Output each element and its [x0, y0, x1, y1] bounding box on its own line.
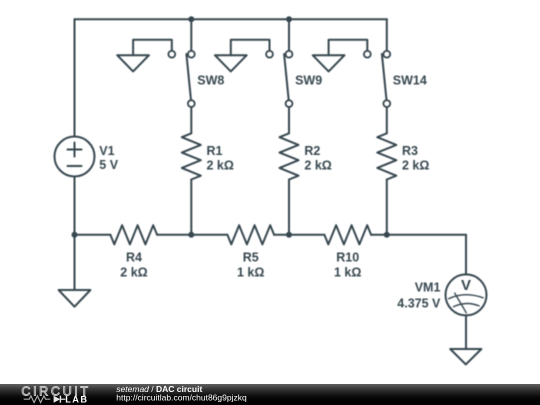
svg-text:R2: R2 — [304, 144, 320, 158]
svg-text:SW9: SW9 — [295, 73, 322, 87]
svg-text:1 kΩ: 1 kΩ — [334, 265, 361, 279]
svg-text:R1: R1 — [207, 144, 223, 158]
svg-text:SW8: SW8 — [197, 73, 224, 87]
svg-text:R4: R4 — [126, 251, 142, 265]
svg-text:2 kΩ: 2 kΩ — [304, 159, 331, 173]
svg-text:4.375 V: 4.375 V — [397, 296, 441, 310]
svg-text:5 V: 5 V — [99, 158, 118, 172]
svg-text:VM1: VM1 — [415, 281, 441, 295]
svg-text:2 kΩ: 2 kΩ — [120, 265, 147, 279]
svg-text:2 kΩ: 2 kΩ — [207, 159, 234, 173]
svg-text:V: V — [461, 277, 471, 294]
svg-text:2 kΩ: 2 kΩ — [402, 159, 429, 173]
svg-text:R5: R5 — [243, 251, 259, 265]
svg-text:LAB: LAB — [65, 395, 88, 405]
svg-text:http://circuitlab.com/chut86g9: http://circuitlab.com/chut86g9pjzkq — [116, 392, 247, 402]
svg-text:V1: V1 — [99, 144, 114, 158]
svg-text:SW14: SW14 — [393, 73, 427, 87]
svg-text:R3: R3 — [402, 144, 418, 158]
svg-text:1 kΩ: 1 kΩ — [237, 265, 264, 279]
svg-text:R10: R10 — [336, 251, 359, 265]
